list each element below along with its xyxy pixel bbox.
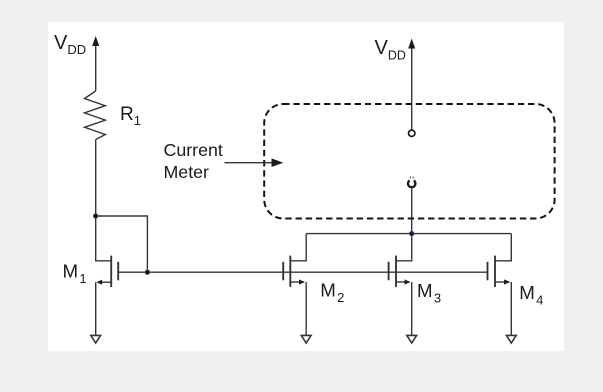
ground M1 [91, 335, 101, 343]
supply arrow VDD right [411, 47, 413, 130]
wire meter to node C [411, 188, 413, 234]
svg-text:Current: Current [164, 140, 223, 160]
M2 source lead with arrow [290, 281, 304, 283]
transistor M1 [111, 256, 118, 287]
M3 drain lead [396, 234, 412, 261]
node B junction dot (M1 gate/drain tie) [145, 270, 149, 274]
white drawing canvas [48, 22, 564, 351]
ground M4 [506, 335, 516, 343]
supply arrow VDD left [95, 45, 97, 91]
M1 source lead with arrow [99, 281, 112, 283]
wire node A to gate-tie corner [96, 216, 148, 272]
transistor M3 [389, 256, 396, 287]
pointer arrow to meter box [225, 162, 273, 164]
svg-text:M3: M3 [417, 280, 441, 306]
label VDD (right supply) [375, 37, 406, 62]
transistor M4 [488, 256, 496, 287]
current meter dashed box [264, 104, 554, 219]
resistor R1 [85, 91, 106, 140]
label R1 [120, 104, 141, 128]
drain bus wire [306, 233, 511, 235]
node A junction dot [94, 214, 98, 218]
ground M2 [301, 335, 311, 343]
svg-text:VDD: VDD [375, 37, 406, 62]
label VDD (left supply) [54, 32, 86, 57]
label M2 [320, 279, 344, 305]
gate bus wire [118, 271, 487, 273]
svg-text:M4: M4 [519, 282, 543, 308]
M3 source lead with arrow [396, 281, 410, 283]
label Current Meter [164, 140, 223, 182]
svg-text:R1: R1 [120, 104, 141, 128]
ground M3 [407, 335, 417, 343]
M4 drain lead [495, 234, 511, 261]
wire node A down to M1 drain [96, 216, 112, 261]
wire R1 to node A [95, 140, 97, 217]
svg-text:Meter: Meter [164, 162, 210, 182]
meter terminal top [409, 130, 415, 136]
label M1 [63, 261, 87, 287]
meter terminal bottom [408, 181, 415, 188]
M2 drain lead [290, 234, 306, 261]
label M4 [519, 282, 543, 308]
svg-text:M2: M2 [320, 279, 344, 305]
M4 source lead with arrow [495, 281, 509, 283]
svg-text:VDD: VDD [54, 32, 86, 57]
transistor M2 [283, 256, 290, 287]
node C junction dot (meter to drain bus) [410, 231, 414, 235]
svg-text:M1: M1 [63, 261, 87, 287]
label M3 [417, 280, 441, 306]
